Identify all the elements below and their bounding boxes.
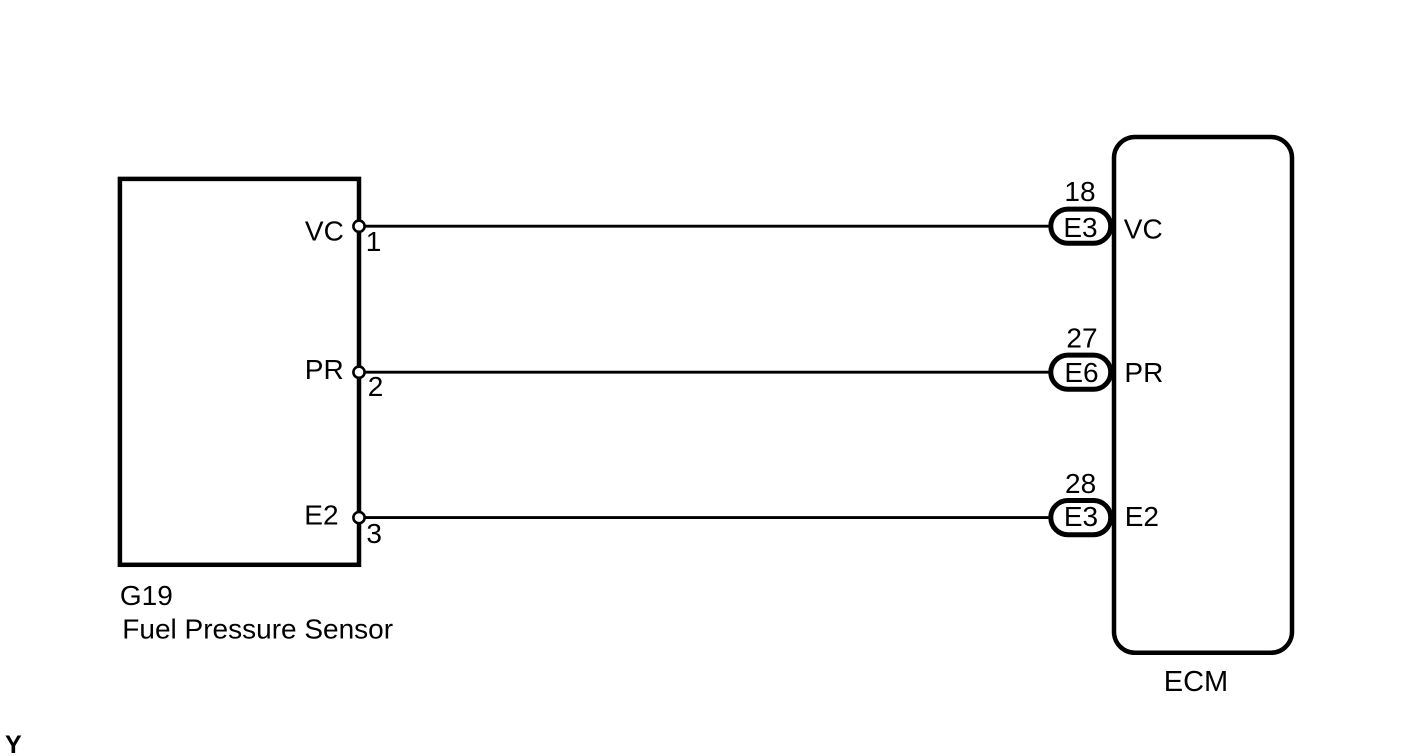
svg-text:27: 27 (1066, 322, 1097, 353)
wire E2: G19 pin 3 to ECM E3-28 (359, 516, 1052, 519)
svg-text:Y: Y (5, 731, 22, 756)
svg-text:18: 18 (1064, 176, 1095, 207)
svg-text:1: 1 (366, 226, 382, 257)
pin circle 3 (353, 512, 364, 523)
svg-text:VC: VC (305, 215, 344, 246)
wire PR: G19 pin 2 to ECM E6-27 (359, 371, 1052, 374)
svg-text:G19: G19 (120, 580, 173, 611)
svg-text:PR: PR (1124, 357, 1163, 388)
terminal oval E3 (pin 18) (1051, 209, 1111, 243)
svg-text:28: 28 (1065, 468, 1096, 499)
svg-text:PR: PR (305, 354, 344, 385)
svg-text:3: 3 (366, 518, 382, 549)
svg-text:E2: E2 (1125, 501, 1159, 532)
wire VC: G19 pin 1 to ECM E3-18 (359, 225, 1052, 228)
connector ECM box (1114, 137, 1292, 653)
svg-text:E6: E6 (1064, 357, 1098, 388)
pin circle 1 (353, 221, 364, 232)
terminal oval E6 (pin 27) (1051, 355, 1111, 389)
connector G19 Fuel Pressure Sensor box (120, 179, 359, 565)
svg-text:Fuel Pressure Sensor: Fuel Pressure Sensor (122, 614, 393, 645)
svg-text:VC: VC (1124, 213, 1163, 244)
pin circle 2 (353, 367, 364, 378)
svg-text:2: 2 (368, 371, 384, 402)
svg-text:E2: E2 (304, 499, 338, 530)
svg-text:E3: E3 (1064, 501, 1098, 532)
terminal oval E3 (pin 28) (1051, 501, 1111, 535)
svg-text:ECM: ECM (1164, 666, 1228, 698)
svg-text:E3: E3 (1063, 212, 1097, 243)
